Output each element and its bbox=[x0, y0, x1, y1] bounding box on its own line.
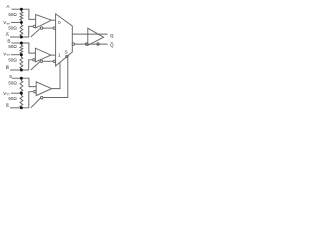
wire node B to comparator U2 noninverting input bbox=[21, 43, 35, 53]
comparator U2 triangle bbox=[35, 48, 51, 62]
node A input wire bbox=[12, 8, 22, 10]
svg-text:B̅: B̅ bbox=[5, 64, 9, 70]
svg-text:0: 0 bbox=[58, 20, 61, 25]
comparator U1 triangle bbox=[36, 15, 52, 29]
resistor R1 50ohm bbox=[20, 9, 23, 22]
wire Bbar line to mux bbox=[43, 60, 54, 62]
node VTT group3 wire bbox=[11, 92, 21, 94]
node VTT group1 wire bbox=[11, 21, 21, 23]
svg-text:Q: Q bbox=[110, 33, 114, 38]
wire node Sbar to comparator U3 inverting input bbox=[21, 92, 33, 108]
bubble U1 inverting input bbox=[33, 25, 35, 27]
wire node Bbar to comparator U2 inverting input bbox=[21, 60, 32, 70]
node S input wire bbox=[12, 77, 21, 79]
svg-text:A̅: A̅ bbox=[5, 31, 9, 37]
bubble mux inverted input 1 bbox=[53, 60, 55, 62]
node B input wire bbox=[12, 42, 22, 44]
svg-text:S̅: S̅ bbox=[5, 102, 9, 108]
bubble U2 inverting input bbox=[33, 59, 35, 61]
wire Abar line to mux bbox=[43, 27, 53, 29]
node Abar input wire bbox=[10, 36, 21, 38]
wire node A to comparator U1 noninverting input bbox=[21, 9, 35, 19]
bubble mux inverted select input bbox=[66, 55, 68, 57]
junction dot node VTT group2 bbox=[20, 53, 23, 56]
bubble U3 inverting input bbox=[34, 91, 36, 93]
bubble mux complement output bbox=[72, 43, 74, 45]
junction dot node A bbox=[20, 8, 23, 11]
bubble on Sbar line bbox=[41, 97, 43, 99]
node VTT group2 wire bbox=[11, 54, 21, 56]
svg-text:50Ω: 50Ω bbox=[8, 81, 17, 86]
resistor R4 50ohm bbox=[20, 55, 23, 70]
bubble U5 inverted output bbox=[97, 43, 99, 45]
junction dot node VTT group1 bbox=[20, 21, 23, 24]
svg-text:S: S bbox=[65, 49, 68, 54]
resistor R3 50ohm bbox=[20, 43, 23, 55]
svg-text:S: S bbox=[9, 74, 12, 79]
node Sbar input wire bbox=[10, 107, 21, 109]
junction dot node S bbox=[20, 77, 23, 80]
svg-text:A: A bbox=[6, 4, 10, 9]
bubble U5 inverting input bbox=[85, 43, 87, 45]
svg-text:50Ω: 50Ω bbox=[8, 26, 17, 31]
wire mux complement output to buffer U5 bbox=[75, 43, 108, 45]
junction dot node B bbox=[20, 42, 23, 45]
wire U3 output to mux select bbox=[52, 63, 60, 89]
svg-text:B: B bbox=[7, 39, 10, 44]
junction dot node VTT group3 bbox=[20, 92, 23, 95]
junction dot node Sbar bbox=[20, 106, 23, 109]
wire node Abar to comparator U1 inverting input bbox=[21, 26, 33, 37]
wire Sbar diagonal bbox=[31, 98, 41, 108]
mux U4 trapezoid bbox=[56, 14, 73, 66]
node Bbar input wire bbox=[10, 69, 21, 71]
bubble on Bbar line bbox=[40, 60, 42, 62]
comparator U3 triangle bbox=[36, 82, 52, 96]
svg-text:50Ω: 50Ω bbox=[8, 12, 17, 17]
wire U2 output to mux input 1 bbox=[51, 54, 56, 56]
wire Sbar line to mux select bubble bbox=[43, 58, 68, 98]
svg-text:Q̅: Q̅ bbox=[110, 41, 114, 47]
svg-text:1: 1 bbox=[58, 53, 61, 58]
bubble mux inverted input 0 bbox=[53, 27, 55, 29]
wire node S to comparator U3 noninverting input bbox=[21, 78, 36, 86]
wire mux true output to buffer U5 bbox=[72, 33, 107, 35]
resistor R2 50ohm bbox=[20, 22, 23, 37]
wire Abar diagonal to mux inverted input 0 bbox=[31, 28, 41, 37]
resistor R6 50ohm bbox=[20, 93, 23, 108]
svg-text:50Ω: 50Ω bbox=[8, 44, 17, 49]
wire U1 output to mux input 0 bbox=[51, 19, 55, 21]
bubble on Abar line bbox=[40, 27, 42, 29]
junction dot node Abar bbox=[20, 36, 23, 39]
svg-text:50Ω: 50Ω bbox=[8, 57, 17, 62]
resistor R5 50ohm bbox=[20, 78, 23, 93]
svg-text:50Ω: 50Ω bbox=[8, 96, 17, 101]
junction dot node Bbar bbox=[20, 69, 23, 72]
buffer U5 triangle bbox=[88, 28, 104, 45]
wire Bbar diagonal to mux inverted input 1 bbox=[31, 61, 40, 70]
